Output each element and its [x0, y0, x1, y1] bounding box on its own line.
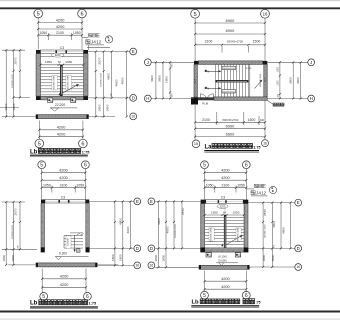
svg-text:J: J: [147, 60, 149, 65]
TL bottom ext lines: [38, 121, 40, 140]
TL-L vertical dim line 2: [13, 50, 15, 116]
TR-R axis bubble H: [308, 95, 315, 102]
TR axis extension lines: [194, 18, 196, 61]
C2 vertical dim line 2: [165, 201, 167, 267]
BL top wall pier right: [85, 200, 89, 204]
svg-text:6: 6: [84, 163, 87, 169]
TL-R axis bubble 16: [130, 113, 137, 120]
BL small stair treads: [64, 234, 83, 236]
svg-text:3600: 3600: [296, 77, 300, 84]
TR dim sub extension: [221, 46, 223, 53]
svg-text:6: 6: [81, 142, 84, 148]
svg-text:E: E: [136, 199, 139, 204]
BL step label box: [76, 249, 80, 252]
svg-text:E: E: [297, 200, 300, 205]
svg-text:C3: C3: [61, 195, 65, 199]
C3 vertical dim line 4: [290, 203, 292, 249]
TL-R vertical dim line 3: [111, 52, 113, 98]
BL small stair winders: [77, 233, 81, 236]
BL top wall window band: [45, 200, 86, 204]
svg-text:1800: 1800: [106, 104, 110, 111]
svg-text:2570: 2570: [98, 57, 102, 64]
BR bottom axis bubble 6: [242, 291, 250, 299]
TL flight label box left: [52, 76, 58, 90]
svg-text:1800: 1800: [162, 254, 166, 261]
svg-text:1800: 1800: [262, 254, 266, 261]
TL top wall window band: [41, 50, 84, 54]
C2 axis bubble 16: [148, 262, 155, 269]
svg-text:6: 6: [245, 293, 248, 299]
svg-text:16X280=2520: 16X280=2520: [264, 224, 266, 238]
TR bottom wall: [214, 97, 267, 100]
TL-L stub wall line: [0, 107, 19, 109]
svg-text:1500: 1500: [277, 80, 279, 86]
C3 note circle mark: [269, 186, 276, 193]
svg-text:Lb: Lb: [192, 300, 200, 306]
TR bottom bubble 15: [192, 140, 200, 148]
svg-text:5: 5: [37, 12, 40, 18]
BL left wall: [41, 203, 45, 248]
svg-text:4600: 4600: [165, 226, 169, 233]
svg-text:4800: 4800: [120, 77, 124, 84]
C1 vertical dim line 3: [129, 201, 131, 248]
svg-text:C1: C1: [193, 79, 197, 83]
svg-text:La: La: [205, 144, 213, 150]
svg-text:D: D: [136, 246, 139, 251]
BR axis bubble 5: [201, 161, 209, 169]
TL top wall corner pier right: [84, 50, 89, 54]
svg-text:4800: 4800: [281, 227, 285, 234]
BR dim 4200 bottom row2: [205, 288, 247, 290]
svg-text:22.200: 22.200: [55, 103, 65, 107]
svg-text:1800: 1800: [164, 76, 168, 83]
BR elevation mark: [216, 262, 238, 264]
svg-text:1050: 1050: [73, 31, 81, 35]
svg-text:D: D: [297, 246, 300, 251]
svg-text:4800: 4800: [118, 218, 122, 225]
svg-text:1050: 1050: [39, 31, 47, 35]
C1 axis bubble 16: [134, 262, 141, 269]
BR dim 4200 row1: [205, 172, 247, 174]
svg-text:16: 16: [135, 264, 139, 268]
TR flight label box top: [222, 66, 236, 69]
TR left wall: [194, 64, 197, 97]
BR dim 4200 row2: [205, 179, 247, 181]
BL dim 1050-2100-1050: [42, 187, 86, 189]
bottom page edge strip: [0, 318, 340, 320]
svg-text:16: 16: [263, 11, 268, 16]
svg-text:2100: 2100: [205, 39, 213, 43]
svg-text:16: 16: [263, 141, 267, 145]
svg-text:6900: 6900: [226, 18, 235, 23]
BR dim sub extension: [214, 186, 216, 193]
TL dim 4200 bottom row1: [39, 129, 83, 131]
TL corridor wall axis line: [2, 116, 36, 118]
BR level oval 3200: [217, 204, 228, 208]
BL small stair left edge: [63, 235, 65, 248]
svg-text:4200: 4200: [59, 168, 68, 173]
BL corridor wall band: [36, 263, 97, 267]
svg-text:1800: 1800: [4, 103, 8, 110]
TR-R axis bubble J: [308, 59, 315, 66]
TR bottom sub extension: [216, 112, 218, 125]
TL stair treads: [41, 67, 84, 69]
svg-text:1800: 1800: [12, 103, 16, 110]
svg-text:(9.100): (9.100): [218, 254, 227, 258]
BR corridor wall band: [199, 265, 249, 269]
svg-text:500X9=2700: 500X9=2700: [227, 39, 243, 43]
svg-text:16X280=2520: 16X280=2520: [175, 223, 177, 237]
svg-text:4200: 4200: [57, 125, 66, 130]
C1 axis bubble D: [134, 245, 141, 252]
TR dim 6900 row1: [195, 22, 265, 24]
svg-text:4200: 4200: [221, 276, 230, 281]
TR-R vertical dim line 1: [292, 62, 294, 98]
drawing frame bottom border: [0, 311, 340, 313]
BR bottom wall pier right: [244, 248, 249, 253]
TR flight label box bottom: [222, 90, 236, 93]
BL right wall end cap: [86, 247, 90, 252]
svg-text:4800: 4800: [107, 73, 111, 80]
TR leader drain: [267, 100, 272, 104]
svg-text:16X280: 16X280: [68, 237, 70, 245]
svg-text:4200: 4200: [56, 18, 65, 23]
TR down arrow: [207, 87, 221, 89]
svg-text:4200: 4200: [59, 175, 68, 180]
svg-text:1950: 1950: [233, 210, 240, 214]
TR bottom ext lines: [194, 105, 196, 140]
svg-text:C3: C3: [221, 195, 225, 199]
C2 vertical dim line 3: [173, 201, 175, 248]
C3 vertical dim line 1: [262, 203, 264, 267]
TR-L axis bubble J: [144, 59, 151, 66]
C3 note P railing: [254, 184, 258, 187]
drawing frame top border: [0, 7, 340, 9]
svg-text:4200: 4200: [221, 168, 230, 173]
BR down arrow: [221, 243, 223, 246]
BL dim 4200 row2: [42, 179, 86, 181]
TR double door arcs: [200, 94, 206, 100]
BL flight label box: [66, 236, 71, 249]
TL dim 4200 row2: [38, 28, 82, 30]
TL note circle mark: [105, 36, 112, 43]
BR door label box up: [235, 253, 240, 257]
svg-text:16X280=4380: 16X280=4380: [238, 227, 240, 241]
BR window center line: [224, 204, 226, 215]
C3 axis line 16: [251, 266, 295, 268]
svg-text:1800: 1800: [271, 254, 275, 261]
TL-L vertical dim line 1: [5, 50, 7, 116]
svg-text:1800: 1800: [154, 254, 158, 261]
TR-R vertical dim line 0: [279, 62, 281, 98]
svg-text:2570: 2570: [181, 208, 185, 215]
svg-text:5: 5: [203, 293, 206, 299]
C1 vertical dim line 1: [114, 201, 116, 265]
svg-text:1800: 1800: [277, 66, 279, 72]
BL dim 4200 bottom row2: [42, 286, 86, 288]
svg-text:1800: 1800: [98, 104, 102, 111]
TL-L mid tick line: [13, 96, 30, 98]
svg-text:2100: 2100: [56, 31, 64, 35]
TL note J412: [86, 40, 90, 44]
TR-L vertical dim line 1: [155, 62, 157, 98]
TL bottom wall pier left: [36, 96, 41, 100]
svg-text:1050: 1050: [43, 184, 51, 188]
svg-text:6: 6: [245, 163, 248, 169]
TL-R vertical dim line 1: [95, 52, 97, 117]
TL level oval 3200: [51, 53, 64, 57]
svg-text:600: 600: [260, 119, 265, 122]
svg-text:2100: 2100: [222, 184, 230, 188]
TL window mullion marks: [55, 51, 57, 54]
svg-text:6900: 6900: [226, 28, 235, 33]
TR bottom wall solid part: [198, 97, 214, 100]
BR left wall: [201, 204, 205, 248]
svg-text:1950: 1950: [65, 60, 72, 64]
svg-text:4800: 4800: [157, 218, 161, 225]
TL top wall corner pier left: [36, 50, 41, 54]
BL dim 4200 row1: [42, 172, 86, 174]
C2 axis line 16: [155, 266, 199, 268]
BL left wall end cap: [41, 247, 45, 252]
TL-R ticks: [95, 50, 97, 52]
TL note P railing: [88, 34, 92, 37]
TR dim row3: [195, 44, 265, 46]
C3 axis bubble 16: [295, 264, 302, 271]
TL axis bubble 5: [34, 9, 43, 18]
TR dim bottom 6900: [195, 128, 265, 130]
TL-R axis bubble E: [130, 48, 137, 55]
BL top wall pier left: [41, 200, 45, 204]
svg-text:5: 5: [38, 142, 41, 148]
BL right wall: [86, 203, 90, 248]
TR-L vertical dim line 3: [169, 62, 171, 98]
TL bottom axis bubble 6: [79, 139, 88, 148]
C3 vertical dim line 2: [271, 203, 273, 267]
TL-R vertical dim line 2: [103, 52, 105, 117]
TL axis bubble 6: [78, 9, 87, 18]
BR top wall pier right: [243, 200, 248, 204]
BR axis bubble 6: [242, 161, 250, 169]
BR corridor band right ext: [249, 266, 251, 268]
C3 axis bubble D: [295, 245, 302, 252]
TL dim sub extension: [47, 33, 49, 40]
TL bottom axis bubble 5: [35, 139, 44, 148]
BR landing dim line: [205, 214, 244, 216]
svg-text:6: 6: [86, 294, 89, 300]
C2 axis line E: [155, 200, 200, 202]
BR bottom wall pier left: [200, 248, 205, 253]
svg-text:3200: 3200: [55, 53, 61, 57]
svg-text:J412: J412: [256, 191, 267, 196]
svg-text:1050: 1050: [76, 184, 84, 188]
TL door label box down: [48, 98, 53, 103]
TL door label box up: [71, 98, 76, 103]
TL bottom wall pier right: [84, 96, 89, 100]
svg-text:H: H: [146, 96, 149, 101]
TL elevation mark: [50, 107, 77, 109]
svg-text:16X280=2520: 16X280=2520: [101, 72, 103, 86]
C1 axis bubble E: [134, 198, 141, 205]
TR-R axis line J: [267, 61, 307, 63]
svg-text:15: 15: [194, 142, 198, 146]
svg-text:5: 5: [40, 163, 43, 169]
TL-L axis tick line top: [2, 49, 25, 51]
svg-text:16X280=2520: 16X280=2520: [12, 73, 14, 87]
TL-L ticks: [5, 49, 7, 51]
svg-text:E: E: [150, 199, 153, 204]
C3 ticks: [262, 202, 264, 204]
svg-text:H: H: [310, 96, 313, 101]
BL window mullion marks: [58, 200, 60, 203]
C3 axis line D: [248, 247, 294, 249]
svg-text:1500: 1500: [248, 118, 256, 122]
svg-text:C1: C1: [263, 78, 267, 82]
TR dim bottom row1: [195, 121, 265, 123]
svg-text:D: D: [150, 246, 153, 251]
svg-text:Lb: Lb: [30, 149, 38, 155]
svg-text:3600: 3600: [150, 75, 154, 82]
BL axis bubble 6: [82, 161, 90, 169]
C2 axis line D: [155, 247, 200, 249]
TL dim 1050-2100-1050: [38, 34, 82, 36]
svg-text:6600: 6600: [226, 131, 235, 136]
svg-text:6: 6: [80, 12, 83, 18]
TR stair center rail: [216, 80, 249, 82]
svg-text:J: J: [310, 60, 312, 65]
BL bottom axis bubble 5: [40, 293, 48, 301]
svg-text:4200: 4200: [56, 24, 65, 29]
svg-text:5: 5: [194, 12, 197, 18]
svg-text:4600: 4600: [126, 226, 130, 233]
svg-text:4200: 4200: [221, 175, 230, 180]
svg-text:3200: 3200: [220, 204, 226, 208]
TL-R vertical dim line 4: [126, 52, 128, 117]
svg-text:D: D: [132, 95, 135, 100]
C2 axis bubble D: [148, 245, 155, 252]
TL-R axis line E: [88, 51, 130, 53]
svg-text:E: E: [132, 49, 135, 54]
C3 note J412: [251, 191, 255, 195]
svg-text:3600: 3600: [157, 75, 161, 82]
BL bottom axis bubble 6: [84, 293, 92, 301]
BL-L axis tick line top: [2, 201, 25, 203]
BR door label box down: [206, 253, 211, 257]
BL dim 4200 bottom row1: [42, 278, 86, 280]
TL-L vertical dim line 3: [19, 50, 21, 97]
svg-text:1800: 1800: [11, 254, 15, 261]
C1 ticks: [114, 200, 116, 202]
BR window mullion marks: [218, 200, 220, 203]
svg-text:4200: 4200: [60, 282, 69, 287]
svg-text:(9.600): (9.600): [218, 258, 227, 262]
TR top wall pier right: [263, 61, 268, 65]
svg-text:16X280=4380: 16X280=4380: [54, 75, 56, 89]
TR top wall: [198, 61, 262, 65]
TR-R vertical dim line 2: [300, 62, 302, 98]
C2 axis bubble E: [148, 198, 155, 205]
svg-text:16X280=4380: 16X280=4380: [211, 227, 213, 241]
TL dim 4200 bottom row2: [39, 136, 83, 138]
svg-text:500X9=2700: 500X9=2700: [223, 68, 236, 70]
BR right wall: [244, 204, 248, 248]
TR-L axis line H: [151, 98, 194, 100]
svg-text:1950: 1950: [211, 210, 218, 214]
TL dim 4200 row1: [38, 22, 82, 24]
BR top wall window band: [206, 200, 243, 204]
svg-text:16X280=2520: 16X280=2520: [12, 224, 14, 238]
C1 vertical dim line 2: [122, 201, 124, 265]
C3 axis bubble E: [295, 199, 302, 206]
BR flight label box left: [209, 228, 214, 241]
BR dim 1050-2100-1050: [205, 187, 247, 189]
svg-text:16: 16: [150, 264, 154, 268]
svg-text:4200: 4200: [60, 274, 69, 279]
TR up arrow: [207, 70, 221, 72]
C2 ticks: [157, 200, 159, 202]
C1 axis line E: [89, 200, 134, 202]
BR stair treads: [205, 217, 244, 219]
TR-L axis line J: [151, 61, 194, 63]
TR bottom bubble 16: [262, 140, 269, 147]
BL corridor wall axis line: [8, 264, 36, 266]
BR dim 4200 bottom row1: [205, 280, 247, 282]
svg-text:Lb: Lb: [30, 301, 38, 307]
TL up arrow diagonal: [61, 84, 78, 93]
BR flight label box right: [236, 228, 241, 241]
TR axis bubble 5: [191, 9, 200, 18]
svg-text:M: M: [207, 70, 209, 73]
svg-text:2100: 2100: [60, 184, 68, 188]
svg-text:1950: 1950: [45, 60, 52, 64]
TR-L vertical dim line 2: [162, 62, 164, 98]
TL axis extension lines: [37, 18, 39, 50]
TL down arrow: [59, 93, 61, 96]
BR bottom ext lines: [204, 271, 206, 292]
TR-R ticks: [279, 61, 281, 63]
svg-text:2100: 2100: [202, 118, 210, 122]
svg-text:4200: 4200: [221, 284, 230, 289]
TR right wall: [264, 64, 267, 97]
TR-L ticks: [155, 61, 157, 63]
TL-R axis line D: [88, 97, 130, 99]
BR up arrow diagonal: [227, 235, 242, 244]
BL down arrow line: [74, 235, 76, 251]
TR stair treads: [215, 64, 217, 97]
TR axis bubble 16: [261, 9, 270, 18]
svg-text:16X280=4380: 16X280=4380: [68, 75, 70, 89]
TR corner column black: [191, 97, 198, 104]
svg-text:2570: 2570: [14, 57, 18, 64]
svg-text:1:75: 1:75: [253, 145, 260, 149]
svg-text:PLM: PLM: [202, 101, 209, 105]
TR dim bottom 6600: [195, 136, 265, 138]
svg-text:1:75: 1:75: [82, 150, 90, 154]
TL right wall: [84, 54, 89, 97]
svg-text:C3: C3: [60, 46, 64, 50]
BL axis bubble 5: [38, 161, 46, 169]
C1 axis line 16: [97, 264, 134, 266]
svg-text:M: M: [207, 87, 209, 90]
svg-text:500X9=2700: 500X9=2700: [222, 118, 238, 122]
svg-text:16: 16: [131, 115, 135, 119]
svg-text:1050: 1050: [237, 184, 245, 188]
svg-text:1500: 1500: [253, 39, 261, 43]
TL bottom wall band: [41, 96, 84, 100]
BR axis extension lines: [204, 169, 206, 200]
TR dim 6900 row2: [195, 33, 265, 35]
BL-L mid tick line: [2, 248, 37, 250]
